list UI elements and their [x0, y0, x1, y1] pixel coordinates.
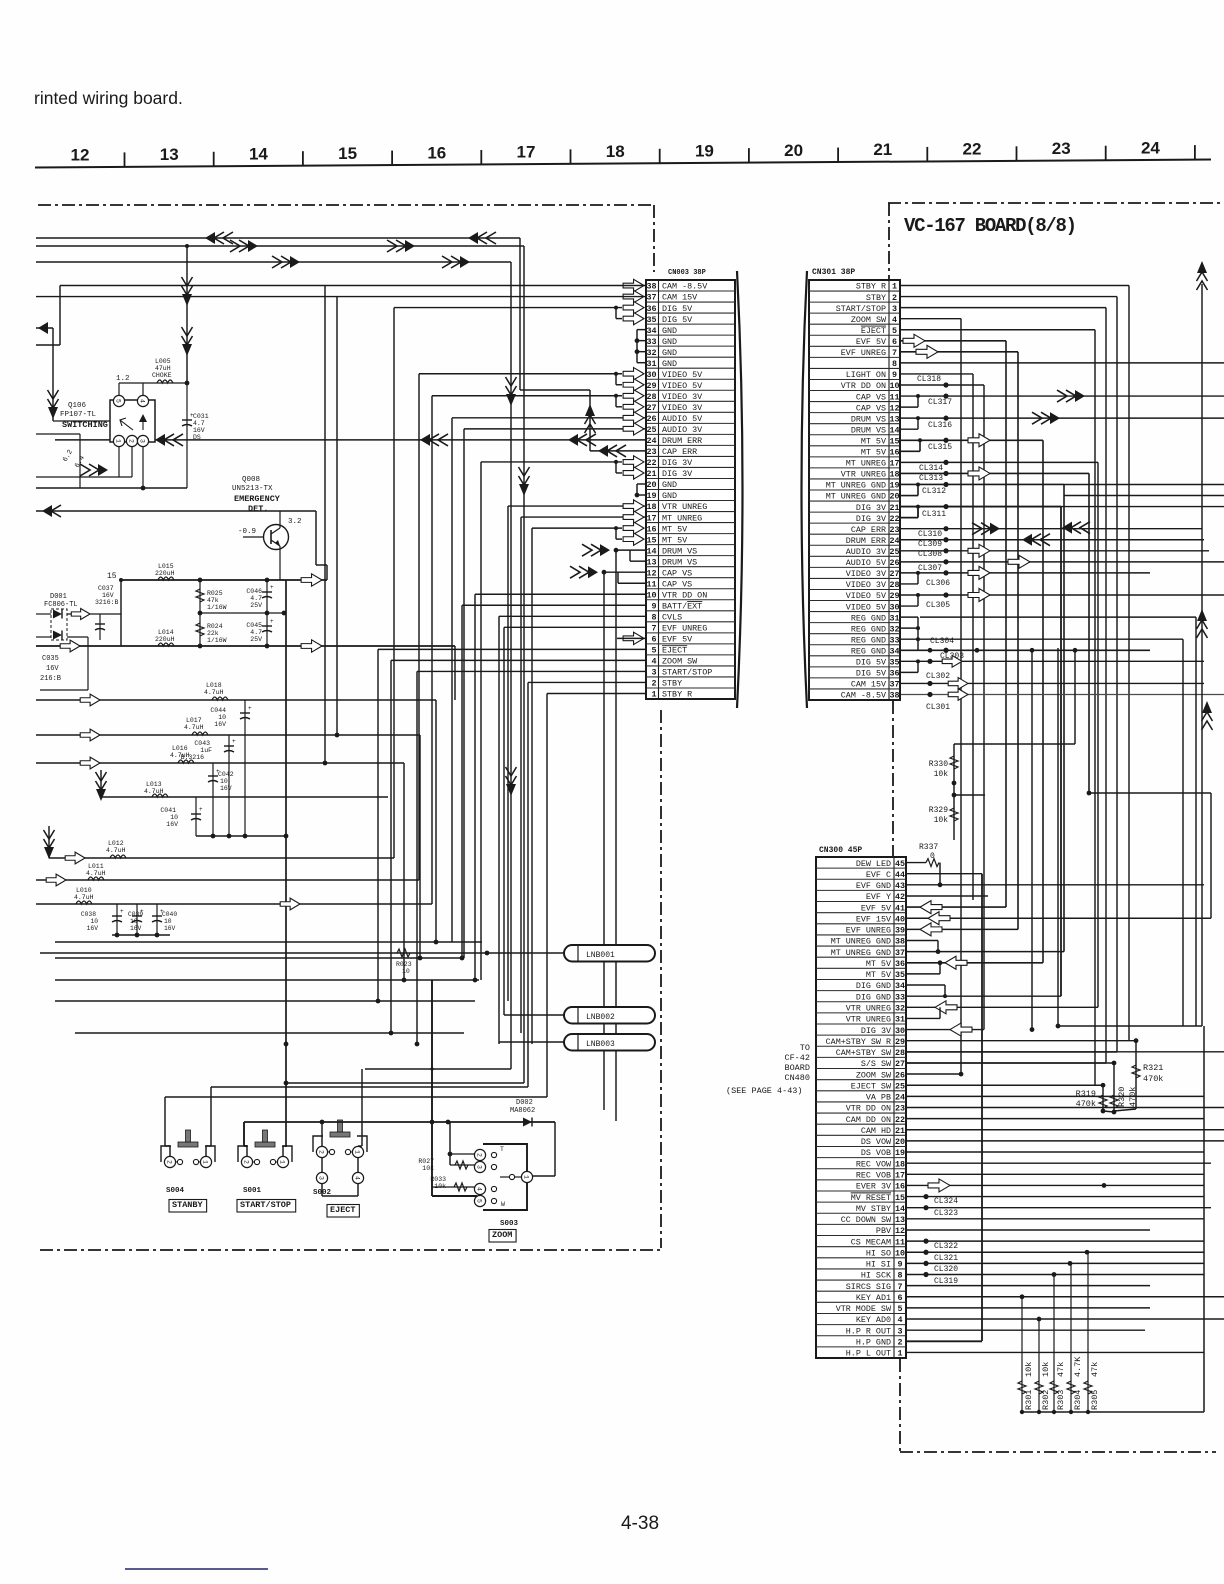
svg-text:11: 11 [646, 579, 656, 589]
svg-text:CL315: CL315 [928, 443, 952, 452]
wire right margin rail B [1056, 261, 1208, 1028]
svg-text:5: 5 [892, 326, 897, 336]
svg-text:VTR DD ON: VTR DD ON [841, 381, 886, 391]
capacitor C040 [152, 904, 177, 935]
inductor L011 4.7uH [36, 863, 419, 886]
wire CN300 pin20 [906, 1140, 1224, 1142]
svg-text:14: 14 [646, 546, 656, 556]
resistor R320 470k [1103, 1063, 1138, 1114]
svg-text:VIDEO 3V: VIDEO 3V [846, 580, 886, 590]
svg-text:3: 3 [139, 439, 146, 443]
S002 pin 2 [316, 1146, 327, 1157]
svg-text:DET.: DET. [248, 504, 268, 514]
svg-text:EVF UNREG: EVF UNREG [841, 348, 886, 358]
svg-text:10: 10 [170, 814, 178, 821]
wire S001 right riser [283, 1146, 286, 1156]
S003 pin 4 [474, 1183, 485, 1194]
svg-text:DRUM VS: DRUM VS [851, 414, 886, 424]
svg-text:24: 24 [895, 1093, 905, 1103]
svg-text:EJECT SW: EJECT SW [851, 1081, 892, 1091]
svg-text:C038: C038 [81, 911, 96, 918]
svg-text:DRUM ERR: DRUM ERR [662, 436, 702, 446]
capacitor C045 [246, 613, 274, 648]
svg-text:31: 31 [889, 613, 899, 623]
svg-text:SIRCS SIG: SIRCS SIG [846, 1282, 891, 1292]
svg-text:S/S SW: S/S SW [861, 1059, 892, 1069]
resistor R025 47k [196, 580, 286, 615]
wire Q008 emitter to bus [280, 546, 288, 1147]
inductor L015 220uH [121, 563, 327, 586]
svg-text:REG GND: REG GND [851, 635, 886, 645]
svg-text:EVER 3V: EVER 3V [856, 1182, 891, 1192]
svg-text:35: 35 [895, 970, 905, 980]
svg-text:16: 16 [895, 1182, 905, 1192]
svg-text:21: 21 [646, 469, 656, 479]
svg-text:VIDEO 3V: VIDEO 3V [662, 392, 702, 402]
svg-text:EVF 5V: EVF 5V [856, 337, 886, 347]
svg-text:CAM HD: CAM HD [861, 1126, 891, 1136]
ferrite bead CL311 [900, 504, 1061, 984]
svg-text:44: 44 [895, 870, 905, 880]
label EJECT [327, 1205, 359, 1218]
svg-text:HI SO: HI SO [866, 1248, 891, 1258]
svg-text:4.7K: 4.7K [1073, 1356, 1083, 1377]
svg-text:CS MECAM: CS MECAM [851, 1237, 891, 1247]
svg-text:VIDEO 5V: VIDEO 5V [662, 381, 702, 391]
note TO CF-42 BOARD CN480 [726, 1043, 810, 1096]
svg-text:10: 10 [90, 918, 98, 925]
svg-text:CAP VS: CAP VS [662, 579, 692, 589]
wire thick S003 left rail [432, 980, 477, 1196]
svg-text:MT 5V: MT 5V [861, 448, 886, 458]
svg-text:C041: C041 [160, 807, 176, 814]
svg-text:24: 24 [889, 536, 899, 546]
wire top feeder A [36, 237, 520, 239]
svg-text:MT UNREG: MT UNREG [662, 513, 702, 523]
svg-text:11: 11 [889, 392, 899, 402]
wire CN003 pin11 hook [618, 572, 646, 583]
svg-text:CL320: CL320 [934, 1265, 958, 1274]
svg-text:Q106: Q106 [68, 402, 87, 410]
svg-text:DRUM VS: DRUM VS [662, 546, 697, 556]
svg-text:9: 9 [651, 601, 656, 611]
svg-text:4.7uH: 4.7uH [74, 894, 94, 901]
wire CN003 pin14 DRUM VS [582, 544, 646, 1121]
wire CN300 pin22 [906, 1118, 1204, 1120]
svg-text:FC806-TL: FC806-TL [44, 601, 78, 609]
svg-text:DIG 5V: DIG 5V [856, 669, 886, 679]
svg-text:R319: R319 [1076, 1089, 1096, 1099]
wire CN300 pin16 EVER 3V [906, 1179, 1204, 1192]
switch S004 STANBY [161, 1130, 215, 1195]
svg-text:GND: GND [662, 348, 677, 358]
svg-text:4: 4 [651, 657, 656, 667]
svg-text:R027: R027 [418, 1158, 434, 1165]
svg-text:PBV: PBV [876, 1226, 891, 1236]
svg-text:28: 28 [646, 392, 656, 402]
svg-text:29: 29 [646, 381, 656, 391]
svg-text:+: + [120, 908, 124, 915]
svg-text:CL313: CL313 [919, 474, 943, 483]
connector CN003 38P [646, 269, 735, 700]
ferrite bead CL317 [900, 390, 1224, 407]
svg-text:470k: 470k [1143, 1074, 1163, 1084]
capacitor C043 [181, 735, 236, 763]
svg-text:VIDEO 5V: VIDEO 5V [846, 591, 886, 601]
svg-text:22: 22 [889, 514, 899, 524]
svg-text:AUDIO 3V: AUDIO 3V [662, 425, 702, 435]
S002 pin 4 [352, 1172, 363, 1183]
svg-text:EVF 5V: EVF 5V [662, 635, 692, 645]
svg-text:CF-42: CF-42 [784, 1053, 810, 1063]
wire CN301 pin7 EVF UNREG [900, 345, 1018, 936]
capacitor bottom bus y836 [196, 735, 288, 838]
down arrows on vertical feeders [506, 377, 530, 796]
wire right margin rail A [906, 791, 1211, 925]
svg-text:15: 15 [889, 436, 899, 446]
wire LNB003 line [499, 1041, 564, 1043]
svg-text:CAM -8.5V: CAM -8.5V [662, 282, 707, 292]
wire CN300 pin18 [906, 1162, 1211, 1164]
wire CN300 pin2 HP GND thick [906, 1340, 982, 1342]
svg-text:EJECT: EJECT [662, 646, 687, 656]
svg-text:VTR UNREG: VTR UNREG [662, 502, 707, 512]
resistor R304 4.7K [1067, 1263, 1083, 1414]
svg-text:20: 20 [646, 480, 656, 490]
svg-text:AUDIO 5V: AUDIO 5V [846, 558, 886, 568]
svg-text:1: 1 [202, 1160, 209, 1164]
svg-text:16V: 16V [87, 925, 99, 932]
svg-text:C040: C040 [162, 911, 177, 918]
wire rail y980 [55, 979, 479, 981]
svg-text:2: 2 [128, 439, 135, 443]
wire Q106 collector to choke [119, 383, 143, 395]
svg-text:DIG 3V: DIG 3V [861, 1026, 891, 1036]
svg-text:CL304: CL304 [930, 637, 954, 646]
pin arrows at CN003 [623, 279, 644, 644]
svg-text:CL323: CL323 [934, 1209, 958, 1218]
wire Q008 base [243, 536, 263, 538]
svg-text:4.7uH: 4.7uH [184, 724, 204, 731]
ferrite bead CL308 [900, 544, 1209, 559]
wire node15 vertical [120, 580, 122, 646]
svg-text:4.7uH: 4.7uH [170, 752, 190, 759]
transistor Q008 UN5213-TX emergency det [232, 476, 302, 550]
svg-text:DIG GND: DIG GND [856, 981, 891, 991]
capacitor C038 [81, 904, 124, 935]
label ZOOM [489, 1230, 516, 1243]
wire CN003 pin6 EVF 5V [617, 637, 646, 639]
svg-text:GND: GND [662, 337, 677, 347]
svg-text:MA8062: MA8062 [510, 1107, 535, 1115]
wire S002 risers [322, 1069, 362, 1196]
svg-text:19: 19 [646, 491, 656, 501]
svg-text:CN300 45P: CN300 45P [819, 846, 862, 855]
svg-text:4: 4 [892, 315, 897, 325]
svg-text:19: 19 [889, 481, 899, 491]
svg-text:32: 32 [646, 348, 656, 358]
svg-text:20: 20 [889, 492, 899, 502]
svg-text:37: 37 [646, 293, 656, 303]
svg-text:ZOOM: ZOOM [492, 1230, 512, 1240]
ferrite bead CL313 [900, 467, 1089, 793]
capacitor C035 label [36, 637, 88, 690]
svg-text:EVF 15V: EVF 15V [856, 914, 891, 924]
svg-text:33: 33 [889, 635, 899, 645]
svg-text:L010: L010 [76, 887, 92, 894]
svg-text:AUDIO 3V: AUDIO 3V [846, 547, 886, 557]
inductor L014 220uH [36, 629, 455, 700]
svg-text:29: 29 [895, 1037, 905, 1047]
svg-text:40: 40 [895, 914, 905, 924]
svg-text:17: 17 [517, 143, 536, 162]
svg-text:MT 5V: MT 5V [662, 524, 687, 534]
wire emergency line y511 [36, 505, 327, 580]
svg-text:220uH: 220uH [155, 570, 175, 577]
svg-text:MT UNREG: MT UNREG [846, 459, 886, 469]
svg-text:MV RESET: MV RESET [851, 1193, 891, 1203]
S003 contact circles [491, 1146, 521, 1208]
wire choke feeder vertical [182, 244, 193, 383]
wire bundle CN003 upper pins nested routing [394, 306, 646, 1044]
svg-text:470k: 470k [1128, 1087, 1138, 1107]
svg-text:CAP ERR: CAP ERR [851, 525, 886, 535]
svg-text:L018: L018 [206, 682, 222, 689]
svg-text:VTR MODE SW: VTR MODE SW [836, 1304, 892, 1314]
svg-text:14: 14 [249, 144, 268, 163]
svg-text:220uH: 220uH [155, 636, 175, 643]
resistor R329 10k [929, 783, 985, 840]
wire S003 common to riser [533, 1122, 555, 1176]
svg-text:7: 7 [897, 1282, 902, 1292]
arrow decorations on feeder C [272, 256, 470, 268]
svg-text:S001: S001 [243, 1187, 262, 1195]
svg-text:2: 2 [651, 679, 656, 689]
svg-text:37: 37 [895, 948, 905, 958]
svg-text:4.7uH: 4.7uH [86, 870, 106, 877]
wire CN301 pin9 LIGHT ON [900, 374, 973, 648]
svg-text:20: 20 [895, 1137, 905, 1147]
capacitor C037 [95, 585, 119, 640]
wire CN301 pin3 [900, 308, 1106, 1063]
wire LNB002 line [504, 1014, 564, 1016]
svg-text:EVF GND: EVF GND [856, 881, 891, 891]
svg-text:STBY: STBY [866, 293, 886, 303]
svg-text:CL318: CL318 [917, 375, 941, 384]
svg-text:28: 28 [889, 580, 899, 590]
svg-text:33: 33 [895, 992, 905, 1002]
svg-text:17: 17 [889, 459, 899, 469]
svg-text:FP107-TL: FP107-TL [60, 411, 97, 419]
svg-text:HI SI: HI SI [866, 1260, 891, 1270]
svg-text:21: 21 [873, 140, 892, 159]
svg-text:15: 15 [338, 144, 357, 163]
wire CN301 pin5 EJECT [900, 330, 1095, 1085]
svg-text:47uH: 47uH [155, 365, 171, 372]
wire CN003 pin10 VTR DD ON [473, 594, 646, 982]
svg-text:16V: 16V [130, 925, 142, 932]
svg-text:CL310: CL310 [918, 530, 942, 539]
svg-text:17: 17 [895, 1171, 905, 1181]
Q106 pin 5 [113, 395, 124, 406]
svg-text:DS: DS [193, 434, 201, 441]
svg-text:VIDEO 5V: VIDEO 5V [662, 370, 702, 380]
wire Q008 collector [279, 511, 281, 528]
svg-text:21: 21 [889, 503, 899, 513]
svg-text:4.7: 4.7 [193, 420, 205, 427]
svg-text:36: 36 [889, 669, 899, 679]
S003 pin 5 [474, 1195, 485, 1206]
svg-text:CL305: CL305 [926, 601, 950, 610]
svg-text:C039: C039 [128, 911, 143, 918]
svg-text:MT 5V: MT 5V [662, 535, 687, 545]
resistor R303 47k [1050, 1275, 1066, 1415]
svg-text:R301: R301 [1024, 1390, 1034, 1410]
wire CN300 pin42 [906, 895, 988, 897]
svg-text:25V: 25V [250, 602, 262, 609]
svg-text:L015: L015 [158, 563, 174, 570]
svg-text:C042: C042 [218, 771, 234, 778]
wire CN003 pin5 [376, 649, 646, 1003]
svg-text:GND: GND [662, 491, 677, 501]
svg-text:18: 18 [895, 1159, 905, 1169]
svg-text:EVF UNREG: EVF UNREG [662, 624, 707, 634]
svg-text:34: 34 [889, 646, 899, 656]
svg-text:(SEE PAGE 4-43): (SEE PAGE 4-43) [726, 1086, 803, 1096]
S004 pin 1 [200, 1156, 211, 1167]
wire S004 left riser [165, 1097, 170, 1156]
ferrite bead CL306 [900, 566, 1150, 588]
svg-text:14: 14 [895, 1204, 905, 1214]
wire CN300 pin5 [906, 1307, 1150, 1309]
svg-text:19: 19 [895, 1148, 905, 1158]
svg-text:CL321: CL321 [934, 1254, 958, 1263]
wire CN300 pin3 [906, 1329, 1145, 1331]
wire CN003 pin1 STBY R [547, 693, 646, 1097]
svg-text:+: + [270, 584, 274, 591]
svg-text:3: 3 [892, 304, 897, 314]
inductor L010 4.7uH [36, 887, 432, 910]
svg-text:LIGHT ON: LIGHT ON [846, 370, 886, 380]
wire CN300 pin28 [906, 1051, 1224, 1053]
svg-text:CN301 38P: CN301 38P [812, 268, 855, 277]
svg-text:27: 27 [895, 1059, 905, 1069]
svg-text:15: 15 [895, 1193, 905, 1203]
svg-text:KEY AD0: KEY AD0 [856, 1315, 891, 1325]
svg-text:LNB003: LNB003 [586, 1040, 615, 1049]
svg-text:12: 12 [889, 403, 899, 413]
svg-text:CAP VS: CAP VS [856, 392, 886, 402]
svg-text:22: 22 [963, 140, 982, 159]
svg-text:2: 2 [166, 1160, 173, 1164]
svg-text:10k: 10k [1024, 1362, 1034, 1377]
ferrite bead CL319 [906, 1272, 1204, 1286]
wire LNB001 line with resistor R023 [40, 949, 564, 975]
svg-text:38: 38 [889, 691, 899, 701]
svg-text:10: 10 [130, 918, 138, 925]
svg-text:EVF 5V: EVF 5V [861, 903, 891, 913]
svg-text:3: 3 [651, 668, 656, 678]
wire CN003 pin7 EVF UNREG [504, 627, 646, 1015]
svg-text:22: 22 [895, 1115, 905, 1125]
svg-text:VA PB: VA PB [866, 1093, 891, 1103]
svg-text:KEY AD1: KEY AD1 [856, 1293, 891, 1303]
svg-text:REG GND: REG GND [851, 613, 886, 623]
wire top feeder B [36, 246, 524, 1083]
svg-text:R302: R302 [1041, 1390, 1051, 1410]
ferrite bead CL302 [900, 672, 1204, 689]
svg-text:15: 15 [646, 535, 656, 545]
svg-text:REC VOW: REC VOW [856, 1159, 892, 1169]
svg-text:21: 21 [895, 1126, 905, 1136]
svg-text:30: 30 [646, 370, 656, 380]
svg-text:24: 24 [1141, 138, 1160, 157]
svg-text:23: 23 [889, 525, 899, 535]
svg-text:CAP VS: CAP VS [856, 403, 886, 413]
svg-text:S004: S004 [166, 1187, 185, 1195]
ferrite bead CL309 [900, 534, 1204, 549]
svg-text:W: W [501, 1201, 505, 1208]
svg-text:1.2: 1.2 [116, 375, 130, 383]
wire right margin extensions [920, 484, 1224, 1026]
svg-text:19: 19 [695, 141, 714, 160]
svg-text:CL314: CL314 [919, 464, 943, 473]
svg-text:10k: 10k [934, 816, 949, 825]
svg-text:MT 5V: MT 5V [866, 970, 891, 980]
ferrite bead CL304 [930, 637, 954, 653]
svg-text:L005: L005 [155, 358, 171, 365]
wire Q106 left side [36, 421, 110, 488]
svg-text:10: 10 [895, 1248, 905, 1258]
wire rail y1001 [55, 1000, 475, 1002]
svg-text:R321: R321 [1143, 1063, 1163, 1073]
inductor L016 4.7uH [36, 745, 406, 982]
svg-text:L014: L014 [158, 629, 174, 636]
ferrite bead CL315 [900, 434, 1043, 970]
svg-text:rinted wiring board.: rinted wiring board. [34, 88, 183, 108]
svg-text:5: 5 [897, 1304, 902, 1314]
svg-text:VIDEO 5V: VIDEO 5V [846, 602, 886, 612]
svg-text:MT UNREG GND: MT UNREG GND [831, 937, 891, 947]
svg-text:L017: L017 [186, 717, 202, 724]
inductor L012 4.7uH [44, 826, 509, 982]
label STANBY [169, 1200, 207, 1213]
svg-text:47k: 47k [1056, 1362, 1066, 1377]
svg-text:MT UNREG GND: MT UNREG GND [826, 481, 886, 491]
svg-text:DIG 3V: DIG 3V [856, 514, 886, 524]
svg-text:VTR UNREG: VTR UNREG [846, 1015, 891, 1025]
Q106 pin 3 [137, 435, 148, 446]
svg-text:EJECT: EJECT [861, 326, 886, 336]
ferrite bead CL301 [900, 689, 1224, 712]
resistor R330 10k [929, 650, 1075, 785]
wire CN301 pin2 [900, 297, 1117, 1052]
arrow decorations on feeder A [205, 232, 496, 244]
svg-text:34: 34 [895, 981, 905, 991]
svg-text:GND: GND [662, 326, 677, 336]
svg-text:L013: L013 [146, 781, 162, 788]
svg-text:MT 5V: MT 5V [861, 436, 886, 446]
switch S002 EJECT [313, 1120, 367, 1197]
svg-text:H.P GND: H.P GND [856, 1338, 891, 1348]
svg-text:STANBY: STANBY [172, 1200, 204, 1210]
wire S001 left riser [244, 1122, 247, 1156]
ferrite bead CL322 [906, 1239, 1204, 1252]
svg-text:REG GND: REG GND [851, 646, 886, 656]
svg-text:35: 35 [889, 658, 899, 668]
svg-text:R337: R337 [919, 843, 938, 852]
VC-167 board dash-dot border [888, 203, 1224, 1452]
